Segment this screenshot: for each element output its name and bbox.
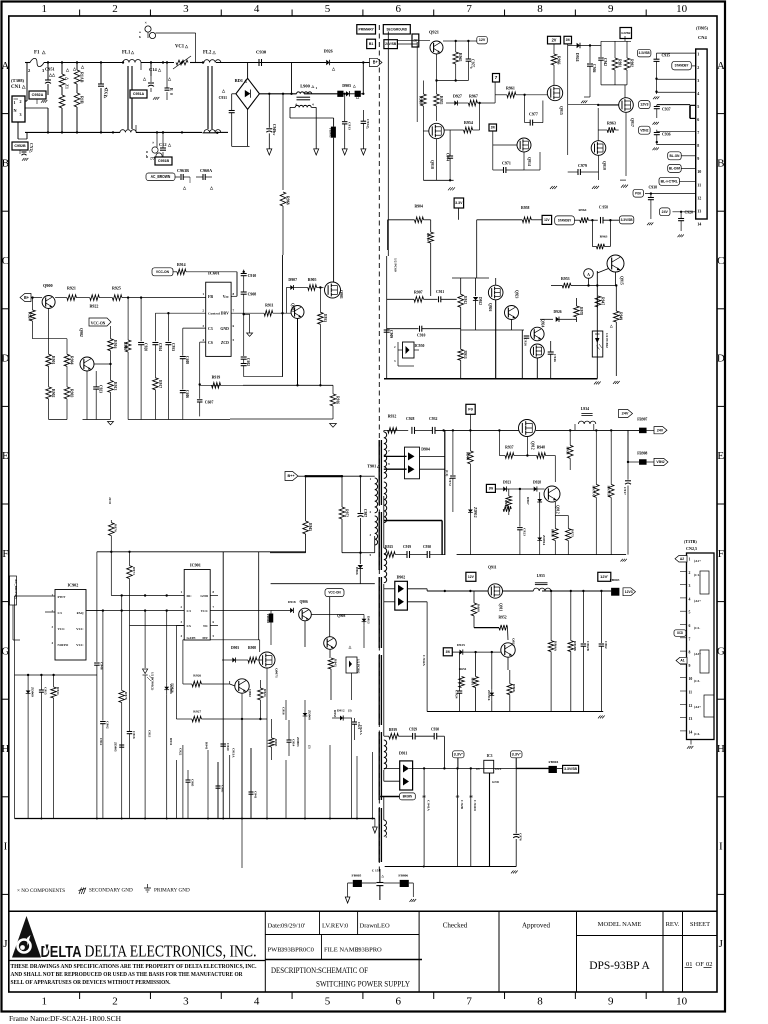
svg-text:(C1): (C1) — [445, 470, 449, 476]
svg-text:2W: 2W — [566, 38, 571, 42]
svg-text:1: 1 — [697, 52, 699, 57]
svg-text:C987: C987 — [363, 509, 367, 517]
svg-text:THESE DRAWINGS AND SPECIFICATI: THESE DRAWINGS AND SPECIFICATIONS ARE TH… — [11, 963, 257, 970]
svg-text:R967: R967 — [526, 497, 530, 505]
svg-text:8: 8 — [689, 651, 691, 655]
svg-text:ZD 916: ZD 916 — [487, 690, 491, 701]
svg-text:24V: 24V — [622, 411, 629, 416]
svg-text:C926: C926 — [524, 338, 528, 346]
svg-text:393BPR0C0: 393BPR0C0 — [281, 947, 314, 954]
svg-text:C913: C913 — [147, 730, 151, 738]
svg-text:R976: R976 — [124, 692, 128, 700]
svg-text:C917: C917 — [623, 487, 627, 495]
svg-text:Q915: Q915 — [620, 276, 624, 285]
svg-text:C903: C903 — [220, 785, 224, 793]
svg-text:R953: R953 — [561, 277, 570, 281]
svg-text:Q923: Q923 — [515, 290, 519, 299]
svg-text:A1: A1 — [680, 659, 684, 663]
svg-text:R964: R964 — [579, 208, 587, 212]
svg-text:R966A: R966A — [554, 641, 558, 652]
svg-text:Q921: Q921 — [429, 30, 439, 35]
svg-text:R1B: R1B — [80, 96, 85, 104]
svg-text:R608: R608 — [476, 604, 480, 612]
svg-text:R939: R939 — [389, 728, 397, 732]
svg-text:DRV: DRV — [221, 312, 229, 316]
svg-text:1: 1 — [41, 996, 47, 1008]
svg-text:R943: R943 — [333, 659, 337, 667]
svg-text:D: D — [717, 353, 725, 365]
svg-text:VC1: VC1 — [175, 45, 185, 50]
svg-text:SHEET: SHEET — [690, 921, 710, 928]
svg-text:ZD903: ZD903 — [296, 737, 300, 747]
svg-text:D928: D928 — [533, 481, 541, 485]
svg-text:R963: R963 — [607, 121, 616, 126]
svg-text:PRIMARY GND: PRIMARY GND — [154, 888, 190, 894]
svg-text:C902: C902 — [105, 721, 109, 729]
svg-text:14: 14 — [689, 730, 693, 734]
svg-text:R922: R922 — [90, 304, 99, 309]
svg-text:C921A: C921A — [359, 725, 363, 735]
svg-text:o: o — [146, 150, 148, 154]
svg-text:R913: R913 — [113, 382, 117, 390]
svg-text:13: 13 — [689, 717, 693, 721]
svg-text:C952B: C952B — [14, 143, 25, 148]
svg-text:D918: D918 — [288, 600, 296, 604]
svg-text:D904: D904 — [421, 448, 430, 452]
svg-text:BL-DIM: BL-DIM — [669, 166, 680, 170]
svg-text:ZD926: ZD926 — [171, 683, 175, 693]
svg-text:1: 1 — [41, 3, 47, 15]
svg-text:V5N2: V5N2 — [640, 128, 648, 132]
svg-text:R911: R911 — [265, 304, 273, 308]
svg-text:FB902: FB902 — [266, 614, 270, 624]
svg-text:12V: 12V — [544, 218, 550, 222]
svg-text:LV.REV:: LV.REV: — [322, 923, 345, 930]
svg-text:24V: 24V — [657, 428, 664, 432]
svg-text:R: R — [169, 88, 173, 91]
svg-text:R965: R965 — [458, 53, 462, 61]
svg-text:R931: R931 — [169, 738, 173, 746]
svg-text:C937: C937 — [662, 108, 671, 112]
svg-text:C952A: C952A — [32, 92, 44, 97]
svg-text:△: △ — [41, 50, 46, 55]
svg-text:(A3+: (A3+ — [694, 652, 701, 656]
svg-text:CN1: CN1 — [11, 85, 21, 90]
svg-text:12V: 12V — [468, 575, 475, 579]
svg-text:Control: Control — [208, 312, 220, 316]
svg-text:3.3V’: 3.3V’ — [512, 752, 521, 756]
svg-text:2V: 2V — [552, 37, 557, 42]
svg-text:10: 10 — [676, 3, 688, 15]
svg-text:3.3V/SB: 3.3V/SB — [639, 51, 651, 55]
svg-text:10: 10 — [689, 677, 693, 681]
svg-text:R1AB: R1AB — [80, 72, 85, 83]
svg-text:6: 6 — [697, 117, 699, 122]
svg-text:H: H — [717, 743, 725, 755]
svg-text:14: 14 — [697, 221, 701, 226]
svg-text:R906: R906 — [123, 342, 127, 350]
svg-text:2: 2 — [697, 65, 699, 70]
svg-text:R966: R966 — [557, 56, 561, 64]
svg-text:24V: 24V — [662, 210, 669, 214]
svg-text:C: C — [2, 255, 9, 267]
svg-text:1: 1 — [316, 86, 318, 90]
svg-text:Q922: Q922 — [512, 638, 516, 646]
svg-text:LEO: LEO — [377, 923, 390, 930]
svg-text:D966: D966 — [355, 567, 359, 575]
svg-text:GND: GND — [200, 594, 208, 598]
svg-text:*: * — [470, 66, 472, 71]
svg-text:C912: C912 — [99, 738, 103, 746]
svg-text:o: o — [139, 30, 141, 34]
svg-text:L955: L955 — [537, 574, 545, 578]
svg-text:L934: L934 — [581, 407, 589, 411]
svg-text:4: 4 — [254, 996, 260, 1008]
svg-text:(C2-: (C2- — [694, 626, 700, 630]
svg-text:IC3: IC3 — [487, 754, 493, 758]
svg-text:CN4: CN4 — [698, 35, 707, 40]
svg-text:3.3V: 3.3V — [455, 201, 463, 205]
svg-text:3.3V/SB: 3.3V/SB — [564, 767, 578, 771]
svg-text:PRIMARY: PRIMARY — [358, 27, 374, 31]
svg-text:Q926: Q926 — [488, 303, 492, 312]
svg-text:3W: 3W — [489, 487, 494, 491]
svg-text:C 941A: C 941A — [427, 800, 431, 811]
svg-text:Q912: Q912 — [531, 441, 535, 450]
svg-text:R958: R958 — [521, 206, 529, 210]
svg-text:CN2,5: CN2,5 — [686, 546, 697, 551]
svg-text:BD1: BD1 — [235, 78, 243, 83]
svg-text:B+: B+ — [24, 295, 29, 300]
svg-text:R954: R954 — [464, 120, 473, 125]
svg-text:SEC/GROUND: SEC/GROUND — [387, 27, 408, 31]
svg-text:12: 12 — [689, 704, 693, 708]
svg-text:ZD905: ZD905 — [114, 742, 118, 752]
svg-text:(C3-: (C3- — [694, 679, 700, 683]
svg-text:V5N2: V5N2 — [656, 460, 664, 464]
svg-text:D902: D902 — [397, 576, 406, 580]
svg-text:Approved: Approved — [522, 922, 550, 930]
svg-text:3: 3 — [20, 112, 22, 117]
svg-text:Q901: Q901 — [339, 290, 343, 299]
svg-text:2: 2 — [112, 996, 118, 1008]
svg-text:POK: POK — [635, 191, 642, 195]
svg-text:R927: R927 — [193, 710, 201, 714]
svg-text:/77: /77 — [149, 157, 155, 161]
svg-text:F: F — [2, 548, 8, 560]
svg-text:R953: R953 — [333, 710, 337, 718]
svg-text:R925: R925 — [112, 286, 121, 291]
svg-text:Q902: Q902 — [79, 328, 83, 337]
svg-text:AND SHALL NOT BE REPRODUCED OR: AND SHALL NOT BE REPRODUCED OR USED AS T… — [11, 971, 243, 978]
svg-text:R919: R919 — [212, 376, 221, 380]
svg-text:OF: OF — [696, 961, 705, 968]
svg-text:FB: FB — [208, 295, 213, 299]
svg-text:C933: C933 — [171, 343, 175, 351]
svg-text:(T308): (T308) — [11, 78, 24, 83]
svg-text:24V/SB: 24V/SB — [385, 42, 397, 46]
svg-text:FB805: FB805 — [352, 874, 362, 878]
svg-text:13: 13 — [697, 208, 701, 213]
svg-text:C962: C962 — [604, 641, 608, 649]
svg-text:C913: C913 — [348, 122, 352, 130]
svg-text:ZCD: ZCD — [221, 341, 229, 345]
svg-text:△: △ — [366, 126, 370, 130]
svg-text:SECONDARY GND: SECONDARY GND — [89, 888, 133, 894]
svg-text:ZD912: ZD912 — [473, 507, 477, 518]
svg-text:Q914: Q914 — [527, 157, 531, 166]
svg-text:MV: MV — [202, 636, 208, 640]
svg-text:R924: R924 — [263, 689, 267, 697]
svg-text:R991: R991 — [618, 59, 622, 67]
svg-text:C941: C941 — [253, 791, 257, 799]
svg-text:4: 4 — [697, 91, 699, 96]
svg-text:3.3V’: 3.3V’ — [454, 752, 463, 756]
svg-text:R902: R902 — [51, 389, 55, 397]
svg-text:DESCRIPTION:SCHEMATIC OF: DESCRIPTION:SCHEMATIC OF — [271, 966, 368, 975]
svg-text:FB907: FB907 — [637, 418, 647, 422]
svg-text:12V’: 12V’ — [600, 575, 608, 579]
svg-text:IC901: IC901 — [190, 563, 201, 568]
svg-text:Q917: Q917 — [630, 118, 634, 127]
svg-text:C923: C923 — [522, 528, 526, 536]
svg-text:D905: D905 — [342, 83, 351, 88]
svg-text:R961: R961 — [506, 86, 515, 91]
svg-text:C905: C905 — [190, 779, 194, 787]
svg-text:C946: C946 — [592, 64, 596, 72]
svg-text:D925: D925 — [457, 643, 465, 647]
svg-text:R916: R916 — [113, 340, 117, 348]
svg-text:Date:: Date: — [268, 923, 282, 930]
svg-text:F9: F9 — [468, 407, 473, 412]
svg-text:(3): (3) — [348, 709, 352, 713]
svg-text:C916: C916 — [282, 707, 286, 715]
svg-text:STANDBY: STANDBY — [675, 64, 690, 68]
svg-text:C929: C929 — [409, 728, 417, 732]
svg-text:IC950: IC950 — [415, 344, 425, 348]
svg-text:FB804: FB804 — [549, 760, 559, 764]
svg-text:C920: C920 — [685, 211, 693, 215]
svg-text:△: △ — [352, 84, 356, 88]
svg-text:C935: C935 — [662, 54, 671, 58]
svg-text:Q915: Q915 — [559, 106, 563, 115]
svg-text:3: 3 — [689, 584, 691, 588]
svg-text:C977: C977 — [529, 112, 538, 117]
svg-text:VCC: VCC — [76, 643, 84, 647]
svg-text:R903: R903 — [70, 389, 74, 397]
svg-text:5: 5 — [697, 104, 699, 109]
svg-text:R971: R971 — [132, 567, 136, 575]
svg-text:4: 4 — [254, 3, 260, 15]
svg-text:AC_BROWN: AC_BROWN — [151, 174, 171, 179]
svg-text:B: B — [717, 157, 724, 169]
svg-text:R912: R912 — [463, 296, 467, 304]
svg-text:D922: D922 — [478, 297, 482, 305]
svg-text:H: H — [1, 743, 9, 755]
svg-text:(A4+: (A4+ — [694, 705, 701, 709]
svg-text:VCC-ON: VCC-ON — [91, 322, 106, 326]
svg-text:C606: C606 — [185, 390, 189, 398]
svg-text:F: F — [718, 548, 724, 560]
svg-text:(A2+: (A2+ — [694, 599, 701, 603]
svg-text:C910: C910 — [417, 334, 425, 338]
svg-text:E: E — [717, 450, 724, 462]
svg-text:IC601: IC601 — [208, 271, 220, 276]
svg-text:5: 5 — [325, 996, 331, 1008]
svg-text:D903: D903 — [231, 646, 239, 650]
svg-text:11: 11 — [689, 691, 693, 695]
svg-text:△: △ — [348, 645, 352, 649]
svg-text:A: A — [587, 273, 590, 277]
svg-text:C931: C931 — [219, 96, 227, 100]
svg-text:b: b — [139, 35, 141, 39]
svg-text:E: E — [2, 450, 9, 462]
svg-text:Q911: Q911 — [499, 603, 503, 611]
svg-text:B+: B+ — [373, 60, 378, 65]
svg-text:VCC: VCC — [76, 627, 84, 631]
svg-text:D: D — [1, 353, 9, 365]
svg-text:7: 7 — [466, 996, 472, 1008]
svg-text:10: 10 — [697, 169, 701, 174]
svg-text:4: 4 — [689, 597, 691, 601]
svg-text:R914: R914 — [177, 263, 186, 267]
svg-text:C14: C14 — [149, 67, 157, 72]
svg-text:R903: R903 — [274, 739, 278, 747]
svg-text:R944: R944 — [466, 452, 470, 460]
svg-text:SELL OF APPARATUSES OR DEVICES: SELL OF APPARATUSES OR DEVICES WITHOUT P… — [11, 979, 171, 986]
svg-text:R970: R970 — [426, 233, 430, 241]
svg-text:R907: R907 — [414, 291, 423, 295]
svg-text:R933: R933 — [323, 314, 327, 322]
svg-text:REV.: REV. — [666, 921, 680, 928]
svg-text:△: △ — [609, 324, 613, 328]
svg-text:Q918: Q918 — [430, 160, 434, 169]
svg-text:7: 7 — [697, 130, 699, 135]
svg-text:C951: C951 — [45, 67, 55, 72]
svg-text:9: 9 — [689, 664, 691, 668]
svg-text:R947: R947 — [601, 297, 605, 305]
svg-text:1/2 PC60: 1/2 PC60 — [394, 258, 398, 272]
svg-text:L900: L900 — [300, 84, 310, 89]
svg-text:1/2 PC901(2): 1/2 PC901(2) — [151, 672, 155, 690]
svg-text:3: 3 — [183, 996, 189, 1008]
svg-text:D926: D926 — [554, 310, 562, 314]
svg-text:12V: 12V — [479, 38, 486, 42]
svg-text:ZD914: ZD914 — [542, 535, 546, 545]
svg-text:MODEL NAME: MODEL NAME — [598, 921, 642, 928]
svg-text:6: 6 — [396, 3, 402, 15]
svg-text:R951: R951 — [471, 678, 475, 686]
svg-text:I: I — [4, 841, 8, 853]
svg-text:Z1: Z1 — [65, 84, 70, 89]
svg-text:3: 3 — [697, 78, 699, 83]
svg-text:R905: R905 — [308, 278, 317, 282]
svg-text:C 958: C 958 — [599, 206, 608, 210]
svg-text:Q902: Q902 — [248, 689, 252, 697]
svg-text:C962B: C962B — [586, 641, 590, 652]
svg-text:R963: R963 — [600, 235, 608, 239]
svg-text:0: 0 — [169, 93, 173, 95]
svg-text:01: 01 — [686, 961, 693, 968]
svg-text:R926: R926 — [193, 674, 201, 678]
svg-text:(A1+: (A1+ — [694, 559, 701, 563]
svg-text:R968: R968 — [512, 684, 516, 692]
svg-text:R917: R917 — [158, 380, 162, 388]
svg-text:12: 12 — [697, 195, 701, 200]
svg-text:F1: F1 — [34, 51, 40, 56]
svg-text:R908: R908 — [248, 646, 256, 650]
svg-text:GND: GND — [220, 327, 229, 331]
svg-text:C911A: C911A — [232, 748, 236, 758]
svg-text:09/29/10': 09/29/10' — [281, 923, 305, 930]
svg-text:R934: R934 — [56, 687, 60, 695]
svg-text:R932: R932 — [388, 415, 397, 419]
svg-text:C930: C930 — [423, 545, 431, 549]
svg-text:11: 11 — [697, 182, 701, 187]
svg-text:R901: R901 — [51, 356, 55, 364]
svg-text:C960A: C960A — [200, 168, 212, 173]
svg-text:D924: D924 — [575, 53, 579, 61]
svg-text:R977A: R977A — [591, 486, 595, 497]
svg-text:7: 7 — [495, 75, 498, 80]
svg-text:A: A — [717, 60, 725, 72]
svg-text:C3: C3 — [58, 611, 62, 615]
svg-text:B: B — [2, 157, 9, 169]
svg-text:C976: C976 — [519, 833, 523, 841]
svg-text:C940: C940 — [226, 743, 230, 751]
svg-text:CS: CS — [208, 341, 213, 345]
svg-text:JCD: JCD — [108, 497, 112, 504]
svg-text:R924: R924 — [28, 312, 32, 320]
svg-text:Q911: Q911 — [488, 566, 497, 570]
svg-text:C979: C979 — [578, 163, 587, 168]
svg-text:C3: C3 — [208, 327, 213, 331]
svg-text:B1: B1 — [369, 41, 374, 46]
svg-text:C 942A: C 942A — [422, 655, 426, 666]
svg-text:C914: C914 — [291, 739, 295, 747]
svg-text:1/2 PC902: 1/2 PC902 — [357, 659, 361, 674]
svg-text:T901: T901 — [367, 464, 376, 469]
svg-text:C924: C924 — [158, 343, 162, 351]
svg-text:3.3VSB: 3.3VSB — [621, 31, 630, 35]
svg-text:C951B: C951B — [158, 158, 169, 163]
svg-text:D926: D926 — [324, 49, 333, 54]
svg-text:b: b — [146, 155, 148, 159]
svg-text:J: J — [719, 938, 724, 950]
svg-text:Frame Name:DF-SCA2H-1R00.SCH: Frame Name:DF-SCA2H-1R00.SCH — [9, 1014, 122, 1023]
svg-text:R976: R976 — [114, 524, 118, 532]
svg-text:VCC-ON: VCC-ON — [328, 591, 341, 595]
svg-text:C911: C911 — [436, 290, 444, 294]
svg-text:C963B: C963B — [177, 168, 189, 173]
svg-text:Er: Er — [272, 132, 276, 136]
svg-text:Q924: Q924 — [541, 319, 545, 328]
svg-text:R904: R904 — [70, 356, 74, 364]
svg-text:GATE: GATE — [187, 636, 197, 640]
svg-text:R975: R975 — [571, 529, 575, 537]
svg-text:(T3TB): (T3TB) — [684, 539, 697, 544]
svg-text:1: 1 — [689, 558, 691, 562]
svg-text:1: 1 — [14, 100, 16, 105]
svg-text:R958: R958 — [565, 447, 569, 455]
svg-text:R904: R904 — [415, 205, 423, 209]
svg-text:FAQ: FAQ — [77, 611, 84, 615]
svg-text:C922: C922 — [179, 748, 183, 756]
svg-text:C 92B: C 92B — [460, 800, 464, 810]
svg-text:C930: C930 — [431, 728, 439, 732]
svg-text:R941: R941 — [205, 742, 209, 750]
svg-text:SWITCHING POWER SUPPLY: SWITCHING POWER SUPPLY — [316, 980, 410, 989]
